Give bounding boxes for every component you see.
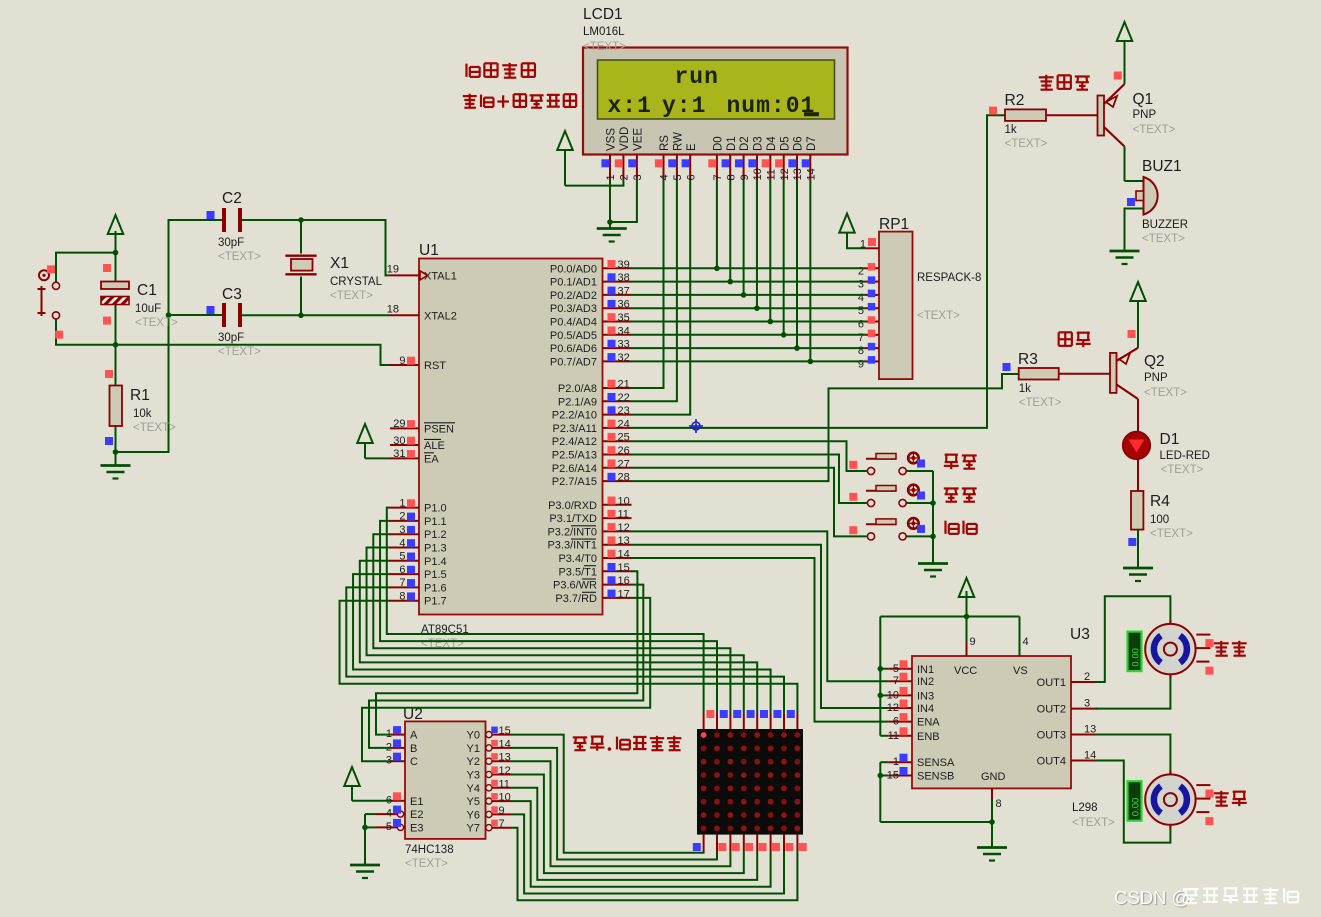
svg-text:1: 1 [893, 756, 899, 768]
svg-text:3: 3 [399, 524, 405, 536]
wire OUT3 to motor2 top [1095, 735, 1170, 775]
wire R3 to Q2 base [1059, 373, 1110, 375]
wire OUT2 to motor1 bottom [1095, 675, 1170, 709]
svg-text:13: 13 [1084, 724, 1096, 736]
svg-text:37: 37 [618, 285, 630, 297]
svg-text:7: 7 [399, 577, 405, 589]
svg-text:<TEXT>: <TEXT> [583, 41, 626, 53]
annotation reset-cn [945, 521, 976, 534]
wire reset circuit rail [113, 231, 119, 466]
svg-text:VCC: VCC [954, 665, 977, 677]
capacitor C3 30pF [207, 303, 241, 327]
svg-text:R3: R3 [1018, 351, 1038, 368]
power +5V EA [357, 424, 390, 458]
ground L298 [977, 848, 1007, 861]
svg-text:10uF: 10uF [135, 303, 161, 315]
wire LCD VDD [565, 180, 623, 186]
svg-text:P0.1/AD1: P0.1/AD1 [550, 277, 597, 289]
svg-text:PNP: PNP [1133, 109, 1157, 121]
svg-text:13: 13 [792, 168, 804, 180]
svg-text:P2.1/A9: P2.1/A9 [558, 396, 597, 408]
svg-text:12: 12 [779, 168, 791, 180]
power +5V reset [108, 215, 124, 236]
svg-text:9: 9 [858, 358, 864, 370]
svg-text:16: 16 [618, 575, 630, 587]
annotation orchard [573, 736, 682, 751]
svg-text:<TEXT>: <TEXT> [1072, 817, 1115, 829]
svg-text:15: 15 [618, 562, 630, 574]
svg-text:num:01: num:01 [727, 93, 816, 119]
pushbutton start [849, 453, 925, 475]
svg-text:U1: U1 [419, 242, 439, 259]
svg-text:34: 34 [618, 325, 630, 337]
matrix bottom pins [693, 835, 807, 852]
svg-text:RESPACK-8: RESPACK-8 [917, 272, 981, 284]
wire C3 to XTAL2 [242, 313, 390, 319]
svg-text:4: 4 [858, 292, 864, 304]
power +5V Q1 [1117, 22, 1133, 84]
svg-text:P1.1: P1.1 [424, 516, 447, 528]
svg-text:P3.4/T0: P3.4/T0 [558, 553, 597, 565]
svg-text:P0.6/AD6: P0.6/AD6 [550, 343, 597, 355]
wire P2.2 to LCD E [632, 180, 691, 415]
svg-text:Y3: Y3 [467, 770, 480, 782]
svg-text:4: 4 [659, 174, 671, 180]
svg-text:35: 35 [618, 312, 630, 324]
svg-text:<TEXT>: <TEXT> [218, 346, 261, 358]
svg-text:7: 7 [712, 174, 724, 180]
H-bridge driver U3 L298 [887, 617, 1098, 811]
wire pushbutton to rail [56, 253, 116, 345]
svg-text:P3.2/INT0: P3.2/INT0 [547, 526, 597, 538]
svg-text:BUZZER: BUZZER [1142, 219, 1188, 231]
svg-text:19: 19 [387, 263, 399, 275]
label R4 [1150, 493, 1193, 540]
svg-text:x:1: x:1 [608, 93, 652, 119]
svg-text:Q1: Q1 [1133, 91, 1154, 108]
svg-text:0.00: 0.00 [1131, 798, 1142, 817]
svg-text:ENB: ENB [917, 731, 940, 743]
svg-text:CRYSTAL: CRYSTAL [330, 276, 383, 288]
svg-text:2: 2 [399, 511, 405, 523]
svg-text:SENSB: SENSB [917, 771, 954, 783]
svg-text:P2.5/A13: P2.5/A13 [552, 450, 597, 462]
label C1 [135, 282, 178, 329]
svg-text:U3: U3 [1070, 626, 1090, 643]
wire OUT4 to motor2 bottom [1095, 761, 1170, 843]
svg-text:<TEXT>: <TEXT> [135, 317, 178, 329]
pushbutton reset2 [849, 518, 925, 540]
svg-text:P3.3/INT1: P3.3/INT1 [547, 540, 597, 552]
wire D1 to R4 [1137, 459, 1139, 491]
annotation start-cn [944, 455, 977, 470]
resistor pack RP1 RESPACK-8 [858, 232, 913, 380]
wire LCD D0-D7 to P0 bus [714, 180, 813, 364]
label R3 [1018, 351, 1062, 409]
wire ground rail to C2/C3 [116, 220, 225, 452]
svg-text:IN2: IN2 [917, 676, 934, 688]
annotation buzzer-cn [1039, 75, 1090, 90]
svg-text:3: 3 [1084, 698, 1090, 710]
ground buttons [918, 564, 948, 577]
transistor Q2 PNP [1110, 330, 1138, 399]
svg-text:10: 10 [618, 495, 630, 507]
wire P3.5/P3.6/P3.7 to U2 A/B/C [362, 571, 650, 761]
svg-text:Y2: Y2 [467, 756, 480, 768]
origin marker [689, 419, 703, 433]
wire P2.5 to pause button [632, 455, 867, 504]
svg-text:VEE: VEE [633, 128, 645, 151]
svg-text:D7: D7 [806, 136, 818, 151]
svg-text:29: 29 [393, 418, 405, 430]
svg-text:32: 32 [618, 352, 630, 364]
resistor R3 1k [1003, 363, 1059, 380]
wire OUT1 to motor1 top [1095, 596, 1170, 682]
ground buzzer [1110, 251, 1140, 264]
svg-text:Y5: Y5 [467, 796, 480, 808]
svg-text:5: 5 [858, 305, 864, 317]
label U3 [1070, 626, 1115, 829]
capacitor C2 30pF [207, 208, 241, 232]
svg-text:E3: E3 [410, 822, 423, 834]
svg-text:P1.0: P1.0 [424, 503, 447, 515]
svg-text:P1.7: P1.7 [424, 596, 447, 608]
svg-text:RST: RST [424, 360, 446, 372]
svg-text:13: 13 [499, 752, 511, 764]
svg-text:1: 1 [399, 497, 405, 509]
ground R4 [1123, 568, 1153, 581]
svg-text:7: 7 [858, 332, 864, 344]
decoder U2 74HC138 [376, 721, 512, 839]
svg-text:<TEXT>: <TEXT> [1161, 464, 1204, 476]
svg-text:P1.5: P1.5 [424, 569, 447, 581]
svg-text:R1: R1 [130, 387, 150, 404]
svg-text:30pF: 30pF [218, 237, 244, 249]
svg-text:D1: D1 [1160, 431, 1180, 448]
svg-text:100: 100 [1150, 514, 1169, 526]
wire P2.6 to reset button [632, 468, 867, 537]
svg-text:8: 8 [399, 591, 405, 603]
svg-text:P2.3/A11: P2.3/A11 [553, 423, 597, 435]
capacitor C1 10uF [101, 264, 129, 325]
svg-text:P3.7/RD: P3.7/RD [555, 593, 597, 605]
svg-text:D2: D2 [739, 136, 751, 151]
svg-text:24: 24 [618, 418, 630, 430]
svg-text:2: 2 [619, 174, 631, 180]
svg-text:PNP: PNP [1144, 372, 1168, 384]
svg-text:Q2: Q2 [1144, 353, 1165, 370]
svg-text:Y7: Y7 [467, 823, 480, 835]
motor M2 (turn) [1145, 771, 1213, 829]
svg-text:RW: RW [673, 132, 685, 151]
svg-text:14: 14 [499, 738, 511, 750]
svg-text:17: 17 [618, 588, 630, 600]
svg-text:Y0: Y0 [467, 730, 480, 742]
svg-text:L298: L298 [1072, 802, 1098, 814]
label RP1 [879, 216, 981, 322]
svg-text:P1.4: P1.4 [424, 556, 447, 568]
svg-text:<TEXT>: <TEXT> [405, 858, 448, 870]
wire buzzer to ground [1125, 209, 1145, 252]
pushbutton RESET (unlabeled) [38, 265, 64, 338]
wire R2 to Q1 base [1046, 114, 1098, 116]
wire Q1 collector to buzzer [1125, 147, 1145, 182]
label U2 [403, 706, 454, 870]
svg-text:5: 5 [399, 551, 405, 563]
svg-text:P1.6: P1.6 [424, 582, 447, 594]
svg-text:36: 36 [618, 299, 630, 311]
wire P2.1 to LCD RW [632, 180, 677, 401]
svg-text:14: 14 [618, 549, 630, 561]
svg-text:8: 8 [725, 174, 737, 180]
wire P2.0 to LCD RS [632, 180, 664, 388]
svg-text:9: 9 [499, 805, 505, 817]
svg-text:OUT1: OUT1 [1037, 677, 1066, 689]
svg-text:IN3: IN3 [917, 690, 934, 702]
svg-text:6: 6 [399, 564, 405, 576]
svg-text:4: 4 [1023, 636, 1029, 648]
label LCD1 [583, 6, 626, 53]
svg-text:12: 12 [499, 765, 511, 777]
svg-text:<TEXT>: <TEXT> [917, 310, 960, 322]
svg-text:9: 9 [970, 636, 976, 648]
svg-text:D6: D6 [793, 136, 805, 151]
label C2 [218, 190, 261, 263]
wire U2 Y0-Y7 to matrix columns [512, 735, 798, 901]
encoder motor M2 [1128, 781, 1142, 821]
wire Q2 collector to D1 [1137, 399, 1139, 431]
svg-text:P2.6/A14: P2.6/A14 [552, 463, 597, 475]
svg-text:5: 5 [672, 174, 684, 180]
svg-text:8: 8 [996, 798, 1002, 810]
svg-text:11: 11 [499, 778, 510, 790]
svg-text:E2: E2 [410, 809, 423, 821]
svg-text:0.00: 0.00 [1131, 648, 1142, 667]
annotation straight-cn [1214, 641, 1247, 656]
power +5V U2 E1 [344, 767, 390, 801]
svg-text:10: 10 [887, 689, 899, 701]
label D1 [1160, 431, 1210, 476]
wire E2/E3 to ground [362, 814, 376, 865]
LED matrix 8x8 display [697, 729, 803, 835]
svg-text:9: 9 [739, 174, 751, 180]
svg-text:<TEXT>: <TEXT> [1142, 233, 1185, 245]
svg-text:P2.7/A15: P2.7/A15 [552, 476, 597, 488]
svg-text:PSEN: PSEN [424, 423, 454, 435]
svg-text:1k: 1k [1005, 124, 1017, 136]
svg-text:C2: C2 [222, 190, 242, 207]
power +5V RP1 [839, 214, 866, 249]
label Q2 [1144, 353, 1187, 399]
svg-text:4: 4 [399, 537, 405, 549]
svg-text:R4: R4 [1150, 493, 1170, 510]
wire C2 to XTAL1 [242, 217, 390, 275]
svg-text:P3.1/TXD: P3.1/TXD [549, 513, 597, 525]
wire P1.0-P1.7 to matrix rows [340, 508, 798, 714]
label BUZ1 [1142, 158, 1188, 245]
svg-text:P0.0/AD0: P0.0/AD0 [550, 263, 597, 275]
ground LCD [597, 229, 627, 242]
svg-text:8: 8 [858, 345, 864, 357]
svg-text:y:1: y:1 [662, 93, 706, 119]
svg-text:<TEXT>: <TEXT> [1133, 124, 1176, 136]
svg-text:7: 7 [499, 818, 505, 830]
svg-text:P0.5/AD5: P0.5/AD5 [550, 330, 597, 342]
svg-text:6: 6 [685, 174, 697, 180]
encoder motor M1 [1128, 632, 1142, 672]
wire L298 VCC/VS rail [878, 614, 1020, 736]
svg-text:<TEXT>: <TEXT> [1144, 387, 1187, 399]
svg-text:1k: 1k [1019, 383, 1031, 395]
svg-text:OUT3: OUT3 [1037, 730, 1066, 742]
svg-text:IN4: IN4 [917, 703, 934, 715]
svg-text:23: 23 [618, 405, 630, 417]
svg-text:<TEXT>: <TEXT> [1005, 138, 1048, 150]
svg-text:3: 3 [632, 174, 644, 180]
annotation pause-cn [944, 488, 977, 501]
svg-text:P2.0/A8: P2.0/A8 [558, 383, 597, 395]
svg-text:39: 39 [618, 259, 630, 271]
svg-text:P0.7/AD7: P0.7/AD7 [550, 356, 597, 368]
svg-text:Y4: Y4 [467, 783, 480, 795]
svg-text:2: 2 [858, 265, 864, 277]
svg-text:1: 1 [605, 174, 617, 180]
svg-text:11: 11 [618, 509, 629, 521]
svg-text:<TEXT>: <TEXT> [218, 251, 261, 263]
svg-text:E1: E1 [410, 796, 423, 808]
wire P3.4 to ENA [632, 558, 889, 722]
wire RST net [116, 345, 391, 365]
svg-text:BUZ1: BUZ1 [1142, 158, 1182, 175]
svg-text:22: 22 [618, 392, 630, 404]
watermark CSDN [1114, 887, 1298, 908]
svg-text:2: 2 [1084, 671, 1090, 683]
svg-text:P1.3: P1.3 [424, 543, 447, 555]
svg-text:31: 31 [393, 448, 405, 460]
svg-text:RP1: RP1 [879, 216, 909, 233]
svg-text:15: 15 [499, 725, 511, 737]
svg-text:12: 12 [618, 522, 630, 534]
svg-text:12: 12 [887, 702, 899, 714]
svg-text:4: 4 [386, 808, 392, 820]
svg-text:11: 11 [766, 169, 778, 180]
svg-text:VSS: VSS [606, 128, 618, 151]
svg-text:D0: D0 [713, 136, 725, 151]
svg-text:33: 33 [618, 339, 630, 351]
microcontroller U1 AT89C51 [387, 259, 632, 615]
svg-text:9: 9 [399, 355, 405, 367]
svg-text:5: 5 [893, 663, 899, 675]
svg-text:38: 38 [618, 272, 630, 284]
annotation coords [463, 94, 576, 108]
svg-text:CSDN @: CSDN @ [1114, 887, 1190, 908]
svg-text:11: 11 [888, 730, 899, 742]
svg-text:P3.5/T1: P3.5/T1 [558, 566, 597, 578]
svg-text:B: B [410, 743, 417, 755]
svg-text:21: 21 [618, 379, 630, 391]
svg-text:OUT2: OUT2 [1037, 704, 1066, 716]
crystal X1 [285, 256, 316, 275]
svg-text:6: 6 [893, 716, 899, 728]
svg-text:10: 10 [752, 168, 764, 180]
svg-text:7: 7 [893, 675, 899, 687]
svg-text:D4: D4 [766, 136, 778, 151]
svg-text:RS: RS [659, 135, 671, 151]
svg-text:C: C [410, 756, 418, 768]
svg-text:<TEXT>: <TEXT> [1150, 528, 1193, 540]
label X1 [330, 255, 383, 302]
svg-text:LM016L: LM016L [583, 26, 625, 38]
svg-text:P2.4/A12: P2.4/A12 [552, 436, 597, 448]
power +5V LCD [557, 131, 573, 186]
resistor R1 10k [105, 370, 122, 445]
svg-text:3: 3 [858, 279, 864, 291]
svg-text:P3.0/RXD: P3.0/RXD [548, 500, 597, 512]
wire P3.2 to IN2 [632, 531, 889, 681]
ground U2 [350, 865, 380, 878]
wire P2.7 to R3 [632, 374, 1019, 481]
wire P2.3 to R2 [632, 115, 1006, 428]
ground reset rail [101, 466, 131, 479]
svg-text:P2.2/A10: P2.2/A10 [552, 410, 597, 422]
svg-text:26: 26 [618, 445, 630, 457]
svg-text:A: A [410, 730, 418, 742]
svg-text:74HC138: 74HC138 [405, 844, 454, 856]
svg-text:<TEXT>: <TEXT> [330, 290, 373, 302]
svg-text:ALE: ALE [424, 440, 445, 452]
LCD LM016L display U-LCD1 [583, 48, 848, 181]
wire L298 SENSA/SENSB to ground [878, 762, 995, 847]
annotation spray-cn [1059, 332, 1091, 347]
svg-text:13: 13 [618, 535, 630, 547]
svg-text:14: 14 [1084, 750, 1096, 762]
svg-text:P0.4/AD4: P0.4/AD4 [550, 317, 597, 329]
svg-text:ENA: ENA [917, 717, 940, 729]
svg-text:P0.2/AD2: P0.2/AD2 [550, 290, 597, 302]
svg-text:D1: D1 [726, 136, 738, 151]
resistor R4 100 [1128, 491, 1143, 546]
svg-text:X1: X1 [330, 255, 349, 272]
svg-text:30: 30 [393, 435, 405, 447]
wire P0.0-P0.7 to RP1 [632, 268, 867, 361]
svg-text:25: 25 [618, 432, 630, 444]
label C3 [218, 286, 261, 358]
svg-text:OUT4: OUT4 [1037, 756, 1066, 768]
svg-text:C1: C1 [137, 282, 157, 299]
svg-text:SENSA: SENSA [917, 757, 955, 769]
svg-text:VDD: VDD [619, 127, 631, 151]
svg-text:10k: 10k [133, 408, 152, 420]
buzzer BUZ1 [1127, 177, 1158, 215]
wire P2.4 to start button [632, 441, 867, 471]
svg-text:<TEXT>: <TEXT> [133, 422, 176, 434]
svg-text:run: run [675, 64, 719, 90]
svg-text:30pF: 30pF [218, 332, 244, 344]
svg-text:10: 10 [499, 792, 511, 804]
annotation system-status [466, 63, 534, 78]
diode D1 LED-RED [1123, 432, 1151, 460]
svg-text:Y6: Y6 [467, 809, 480, 821]
label R2 [1005, 92, 1048, 150]
annotation turn-cn [1214, 791, 1247, 806]
label R1 [130, 387, 176, 434]
matrix top pins [704, 710, 798, 729]
svg-text:27: 27 [618, 458, 630, 470]
pushbutton pause [849, 485, 925, 507]
svg-text:Y1: Y1 [467, 743, 480, 755]
svg-text:5: 5 [386, 821, 392, 833]
svg-text:EA: EA [424, 453, 439, 465]
